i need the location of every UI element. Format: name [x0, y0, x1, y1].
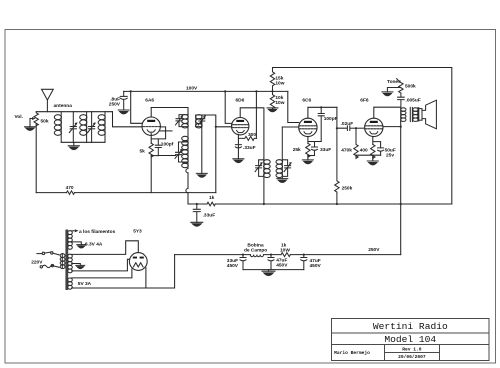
variable capacitor osc padder: [175, 142, 188, 162]
wire ground stem 6C6: [307, 156, 309, 160]
capacitor 100pF plate bypass: [318, 107, 324, 141]
capacitor .33uF B+ bypass: [193, 204, 200, 222]
output transformer core: [410, 107, 412, 121]
svg-text:Tone: Tone: [387, 79, 398, 85]
svg-text:500k: 500k: [405, 83, 416, 89]
ground at filter cap: [118, 110, 129, 114]
wire 6C6 plate: [308, 107, 337, 118]
node rail junction b: [224, 90, 226, 92]
node grid tap: [215, 126, 217, 128]
wire 5V winding bottom B+ out: [72, 255, 175, 288]
svg-text:antenna: antenna: [54, 103, 73, 109]
wire cathode bus: [308, 155, 315, 157]
svg-text:250k: 250k: [342, 185, 353, 191]
power transformer core: [65, 230, 68, 291]
node B+ junction IF2: [263, 203, 265, 205]
svg-text:10W: 10W: [280, 248, 290, 254]
tube 6F6 V4: [365, 118, 383, 136]
svg-text:Rev 1.0: Rev 1.0: [402, 347, 422, 353]
output transformer T3 primary: [401, 107, 406, 121]
variable capacitor IF1a: [176, 115, 189, 127]
svg-text:1k: 1k: [209, 195, 215, 201]
wire plate coupling drop: [337, 107, 347, 128]
node rail junction a: [130, 90, 132, 92]
node B+ junction bypass: [196, 203, 198, 205]
resistor 15k 10w divider: [270, 68, 274, 92]
resistor 10k 10w divider: [270, 91, 274, 108]
svg-text:50k: 50k: [41, 118, 49, 124]
svg-text:470: 470: [66, 185, 74, 191]
ground at LC block: [68, 146, 79, 150]
node B+ junction output: [400, 203, 402, 205]
power transformer 5V winding: [68, 278, 73, 289]
node filter junction: [270, 254, 272, 256]
wire 6F6 cathode: [373, 137, 381, 148]
wire 6D6 screen feed: [225, 91, 232, 123]
IF transformer T1 secondary winding: [196, 115, 203, 128]
wire 5V winding to 5Y3 filament left: [72, 269, 132, 278]
coil L1 antenna primary: [54, 112, 61, 143]
node coupling junction: [336, 127, 338, 129]
resistor 470 AVC: [67, 191, 75, 194]
wire IF1 secondary top to AVC drop: [202, 115, 216, 193]
svg-text:6D6: 6D6: [236, 97, 245, 103]
ground at tone pot: [382, 92, 393, 96]
ground at volume pot: [25, 127, 36, 131]
node rail junction c: [255, 90, 257, 92]
tube 6A6 V1: [142, 117, 160, 135]
wire cathode RC bus: [151, 155, 158, 157]
node rail divider junction: [271, 90, 273, 92]
wire pot bottom down: [35, 124, 37, 193]
speaker: [419, 100, 437, 129]
wire filter ground stem: [268, 270, 270, 272]
resistor 1k 10W filter: [281, 253, 290, 257]
svg-text:5V 3A: 5V 3A: [78, 281, 92, 287]
node filter junction b: [303, 254, 305, 256]
capacitor 33uF cathode: [312, 142, 318, 156]
wire 6D6 plate to IF2: [240, 108, 264, 159]
wire HV center tap chassis: [72, 264, 81, 266]
variable capacitor C2: [88, 112, 96, 143]
wire 6A6 grid2 loop: [151, 127, 165, 139]
output transformer T3 secondary: [413, 108, 419, 122]
wire HV top to 5Y3 plate: [72, 241, 139, 255]
node grid junction: [355, 127, 357, 129]
oscillator coil L4: [182, 136, 189, 169]
variable capacitor IF2a: [255, 160, 264, 177]
variable capacitor C1: [69, 112, 77, 143]
svg-text:400: 400: [360, 147, 368, 153]
wire 6D6 cathode: [237, 134, 239, 159]
resistor 5k cathode: [149, 143, 153, 157]
wire antenna bus: [36, 111, 112, 113]
svg-text:5Y3: 5Y3: [133, 228, 142, 234]
svg-text:25v: 25v: [386, 153, 394, 159]
wire B+ mid rail: [188, 203, 452, 205]
node filter junction c: [242, 254, 244, 256]
chassis at 6.3V tap: [77, 245, 86, 248]
svg-text:6A6: 6A6: [145, 98, 154, 104]
capacitor 50uF 25v cathode: [378, 148, 384, 155]
potentiometer 50k: [30, 112, 38, 126]
svg-text:20/06/2007: 20/06/2007: [398, 354, 426, 360]
ground at 6F6 cathode: [367, 161, 378, 165]
svg-text:.33uF: .33uF: [243, 145, 256, 151]
svg-text:470k: 470k: [341, 147, 352, 153]
capacitor .02uF coupling: [347, 126, 364, 131]
capacitor 47uF 450V first: [268, 255, 274, 270]
svg-text:Mario Bermejo: Mario Bermejo: [334, 350, 370, 356]
svg-text:220V: 220V: [31, 259, 43, 265]
svg-text:6C6: 6C6: [302, 98, 311, 104]
inductor field coil Bobina de Campo: [250, 255, 263, 257]
resistor 470k grid: [354, 128, 358, 158]
capacitor .8uF 250V filter: [120, 91, 127, 110]
wire AVC bus: [36, 192, 216, 194]
node plate junction: [320, 106, 322, 108]
capacitor 33uF 450V: [240, 255, 246, 270]
ground at B+ bypass: [191, 222, 203, 226]
title block: [332, 319, 489, 361]
wire LC bottom bus: [61, 141, 105, 143]
tube 6D6 V2: [232, 118, 249, 135]
power cord squiggle: [40, 264, 59, 268]
resistor 250k B+ drop: [335, 128, 339, 204]
IF transformer T1 primary winding: [182, 115, 189, 136]
power transformer filament winding: [68, 231, 73, 250]
wire ground stem 6F6: [372, 155, 374, 161]
svg-text:Vol.: Vol.: [15, 114, 23, 120]
capacitor .33uF 6D6 cathode: [235, 145, 241, 148]
svg-text:.33uF: .33uF: [203, 213, 216, 219]
wire filament tap arrow: [72, 229, 79, 232]
wire 250V filter rail: [175, 254, 401, 256]
node B+ junction 250k: [336, 203, 338, 205]
coil L2 tuned secondary: [80, 112, 87, 143]
wire top rail loop: [273, 68, 452, 205]
svg-text:250V: 250V: [368, 247, 380, 253]
ground at IF1: [196, 173, 207, 177]
wire pot wiper to ground: [29, 119, 31, 127]
svg-text:10k: 10k: [275, 95, 283, 101]
svg-text:6F6: 6F6: [360, 97, 369, 103]
coil L3: [98, 112, 105, 143]
svg-text:450V: 450V: [276, 263, 288, 269]
svg-text:10w: 10w: [275, 81, 284, 87]
wire IF1 secondary to ground: [201, 121, 203, 173]
svg-text:Wertini Radio: Wertini Radio: [373, 321, 448, 332]
svg-text:15k: 15k: [275, 75, 283, 81]
svg-text:a los filamentos: a los filamentos: [79, 229, 116, 235]
wire 6F6 plate: [374, 107, 401, 118]
wire osc grid stub: [160, 130, 172, 132]
svg-text:450V: 450V: [227, 263, 239, 269]
wire HV bottom to 5Y3 plate 2: [72, 259, 130, 271]
chassis at HV center tap: [76, 265, 85, 268]
resistor 300 cathode: [238, 136, 256, 140]
wire IF1 vertical to B+ with hops: [186, 168, 188, 204]
wire 6C6 screen feed: [288, 91, 299, 122]
wire cathode return to AVC: [150, 156, 152, 193]
ground at 6C6 cathode: [302, 160, 313, 164]
IF transformer T2 secondary winding: [276, 127, 283, 179]
switch power: [37, 252, 59, 255]
wire grid tap to 6D6: [216, 126, 232, 128]
resistor 400 cathode: [371, 144, 375, 158]
potentiometer 500k tone: [387, 79, 403, 97]
IF transformer T2 primary winding: [264, 160, 271, 178]
variable capacitor IF1b: [196, 115, 206, 127]
wire B+ vertical from output transformer: [400, 121, 402, 254]
wire filter ground bus: [243, 269, 304, 271]
wire rail drop to 6A6: [131, 91, 142, 123]
svg-text:de Campo: de Campo: [244, 248, 267, 254]
wire 6C6 cathode: [308, 137, 321, 144]
svg-text:300: 300: [248, 132, 256, 138]
node screen junction: [400, 126, 402, 128]
svg-text:450V: 450V: [310, 263, 322, 269]
svg-text:5k: 5k: [140, 149, 146, 155]
wire 6A6 cathode down: [150, 134, 152, 144]
wire 6A6 plate up: [150, 108, 152, 118]
svg-text:6.3V 4A: 6.3V 4A: [85, 242, 103, 248]
wire IF2 primary line: [263, 159, 265, 204]
capacitor 100pf cathode bypass: [155, 139, 161, 156]
svg-text:100pF: 100pF: [324, 116, 338, 122]
svg-text:250V: 250V: [109, 102, 121, 108]
ground at filter: [262, 271, 275, 275]
svg-text:10w: 10w: [275, 100, 284, 106]
resistor 25k cathode: [306, 143, 310, 157]
wire rail drop to 300: [255, 91, 257, 138]
wire 6.3V tap: [72, 242, 82, 245]
antenna: [42, 89, 54, 111]
ground at 6D6 cathode: [233, 159, 244, 163]
power transformer HV winding: [68, 254, 73, 273]
wire 6F6 screen to B+: [383, 126, 401, 128]
wire 100V rail: [124, 90, 288, 92]
tube 5Y3 rectifier: [129, 253, 147, 271]
ground at IF2: [277, 179, 288, 183]
wire IF2 secondary to 6C6 grid: [282, 126, 298, 128]
capacitor 47uF 450V second: [301, 255, 307, 270]
wire cathode bus 6F6: [356, 154, 381, 156]
wire cathode tap to osc padder: [158, 155, 175, 157]
svg-text:25k: 25k: [293, 147, 301, 153]
wire grid feed to 6A6: [113, 112, 143, 127]
ground at divider: [267, 108, 278, 112]
capacitor .005uF tone: [398, 97, 405, 107]
svg-text:100V: 100V: [186, 85, 198, 91]
svg-text:33uF: 33uF: [320, 147, 331, 153]
wire LC ground stem: [73, 142, 75, 146]
svg-text:.02uF: .02uF: [341, 121, 354, 127]
svg-text:Model 104: Model 104: [384, 334, 436, 345]
wire plate to IF1: [151, 108, 188, 115]
tube 6C6 V3: [299, 118, 317, 136]
variable capacitor IF2b: [282, 160, 292, 177]
resistor 1k B+: [207, 202, 215, 206]
svg-text:100pf: 100pf: [161, 141, 174, 147]
svg-text:.005uF: .005uF: [406, 98, 421, 104]
power transformer primary winding: [60, 254, 65, 269]
